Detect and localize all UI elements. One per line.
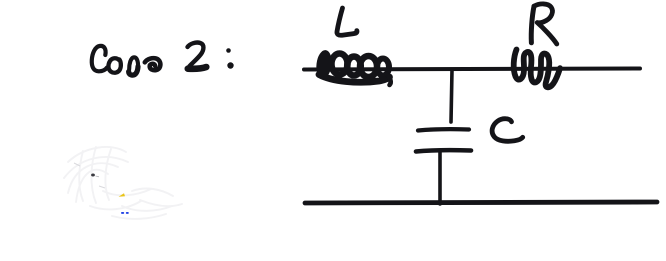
letter C xyxy=(92,46,107,71)
watermark blue dashes xyxy=(121,212,129,214)
watermark dark dot xyxy=(91,174,99,177)
label L xyxy=(337,8,357,35)
resistor R1 squiggle xyxy=(514,50,560,88)
capacitor C1 top plate xyxy=(418,129,469,130)
letter s xyxy=(129,57,138,69)
node junction stem (top wire to capacitor) xyxy=(451,70,452,122)
top wire xyxy=(304,69,640,70)
letter o (flat spiral) xyxy=(145,58,161,70)
handwritten text "Caso 2 :" xyxy=(92,43,234,76)
capacitor C1 bottom plate xyxy=(416,150,471,151)
watermark faint sketch xyxy=(64,147,182,219)
digit 2 xyxy=(188,43,204,67)
colon xyxy=(226,48,231,53)
capacitor lower stem xyxy=(438,152,442,204)
watermark gray speckles xyxy=(74,163,105,188)
bottom wire (ground rail) xyxy=(305,202,657,203)
label c xyxy=(492,119,523,142)
inductor L1 scribble xyxy=(315,50,390,85)
watermark yellow mark xyxy=(119,193,126,197)
letter a xyxy=(108,58,120,73)
label R xyxy=(531,4,557,44)
